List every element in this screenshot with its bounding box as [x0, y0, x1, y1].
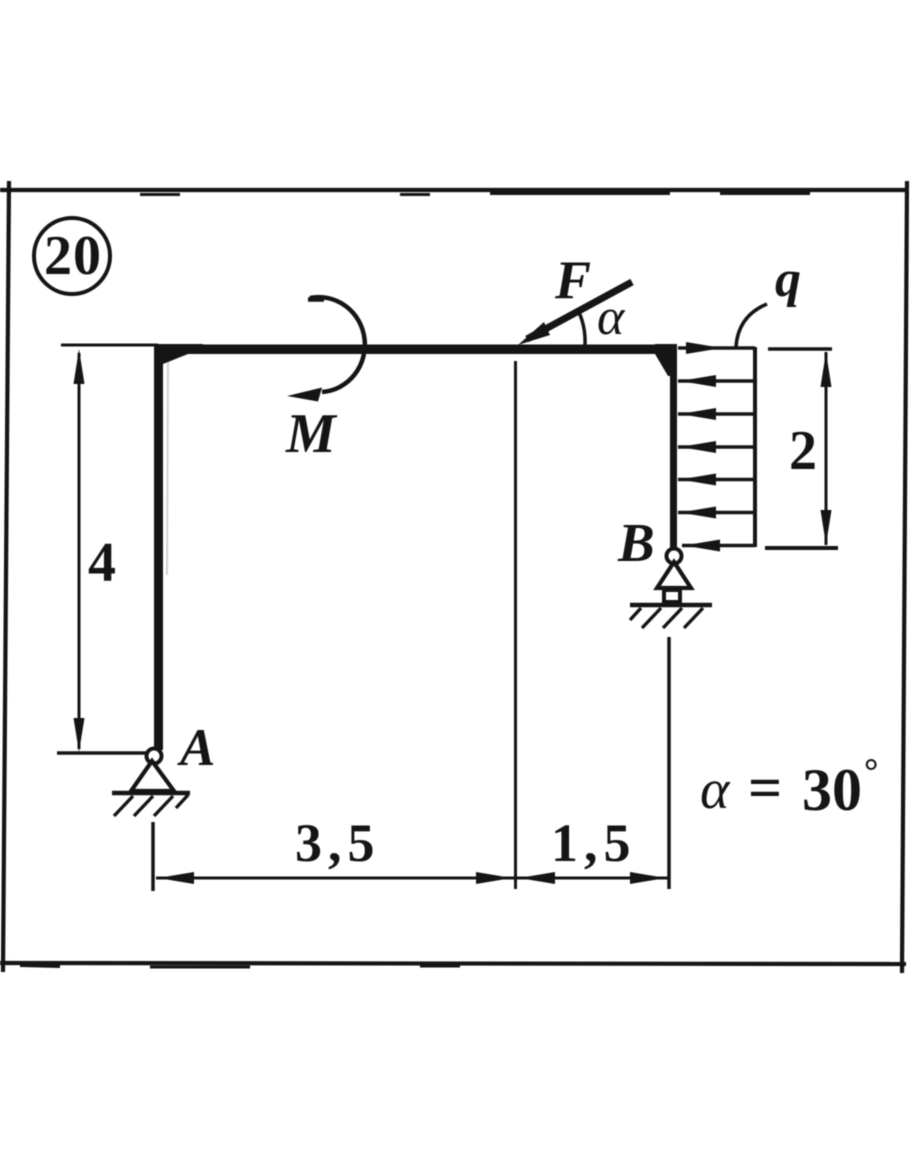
svg-text:3,5: 3,5 [295, 813, 381, 873]
svg-text:=: = [748, 755, 782, 821]
svg-text:α: α [700, 759, 731, 821]
distributed load row 2 [678, 375, 755, 387]
distributed load row 4 [678, 441, 755, 453]
svg-text:A: A [177, 719, 215, 777]
bottom extension line (left, at support A level) [57, 751, 147, 755]
support B ground line [630, 603, 712, 608]
svg-text:B: B [617, 512, 655, 573]
task number badge circle 20 [34, 218, 110, 294]
left vertical extension line (under support A) [151, 822, 155, 891]
frame top beam [154, 345, 677, 355]
svg-text:30: 30 [802, 757, 862, 823]
distributed load row 5 [678, 474, 755, 486]
bottom dimension line [156, 877, 668, 880]
support A hatching [114, 795, 188, 816]
svg-text:α: α [597, 289, 626, 346]
distributed load q right edge line [753, 347, 757, 547]
support A ground line [112, 791, 190, 796]
angle alpha arc at F [577, 308, 585, 345]
dimension 2 line with arrows [821, 352, 832, 545]
distributed load row 6 [678, 507, 755, 519]
svg-text:°: ° [864, 751, 878, 791]
svg-text:4: 4 [88, 532, 116, 594]
support B roller block [664, 590, 680, 602]
bottom dimension arrows 1,5 [519, 872, 666, 884]
top-left corner gusset [154, 344, 203, 364]
bottom dimension arrows 3,5 [158, 872, 512, 884]
moment M arc with arrowhead [287, 297, 365, 401]
support B hatching [630, 608, 703, 628]
top-right corner gusset [655, 344, 677, 376]
distributed load row 1 (arrow pointing right) [678, 342, 755, 354]
dimension 4 line with arrows [74, 349, 85, 752]
distributed load row 3 [678, 408, 755, 420]
svg-text:20: 20 [44, 225, 102, 287]
svg-text:2: 2 [789, 420, 817, 482]
right vertical extension line (under support B) [667, 637, 671, 889]
top extension line (left, at beam level) [61, 344, 158, 347]
support A pin circle [147, 749, 162, 764]
force F vector (thick line + arrowhead) [518, 282, 632, 345]
svg-text:q: q [775, 251, 801, 308]
support B pin circle [667, 549, 682, 564]
scan ghost line [167, 362, 168, 575]
distributed load row 7 [682, 540, 755, 552]
dimension 2 top tick [768, 347, 832, 351]
svg-text:1,5: 1,5 [551, 813, 637, 873]
dimension 2 bottom tick [765, 546, 838, 550]
support B triangle [657, 562, 691, 588]
support A triangle [131, 761, 174, 791]
frame left column [154, 348, 163, 750]
svg-text:F: F [554, 250, 591, 310]
q leader line [736, 304, 767, 347]
svg-text:M: M [285, 403, 338, 465]
mid vertical extension line (under F application point) [514, 361, 517, 889]
frame right column [670, 350, 677, 548]
alpha = 30 deg annotation [700, 751, 878, 823]
